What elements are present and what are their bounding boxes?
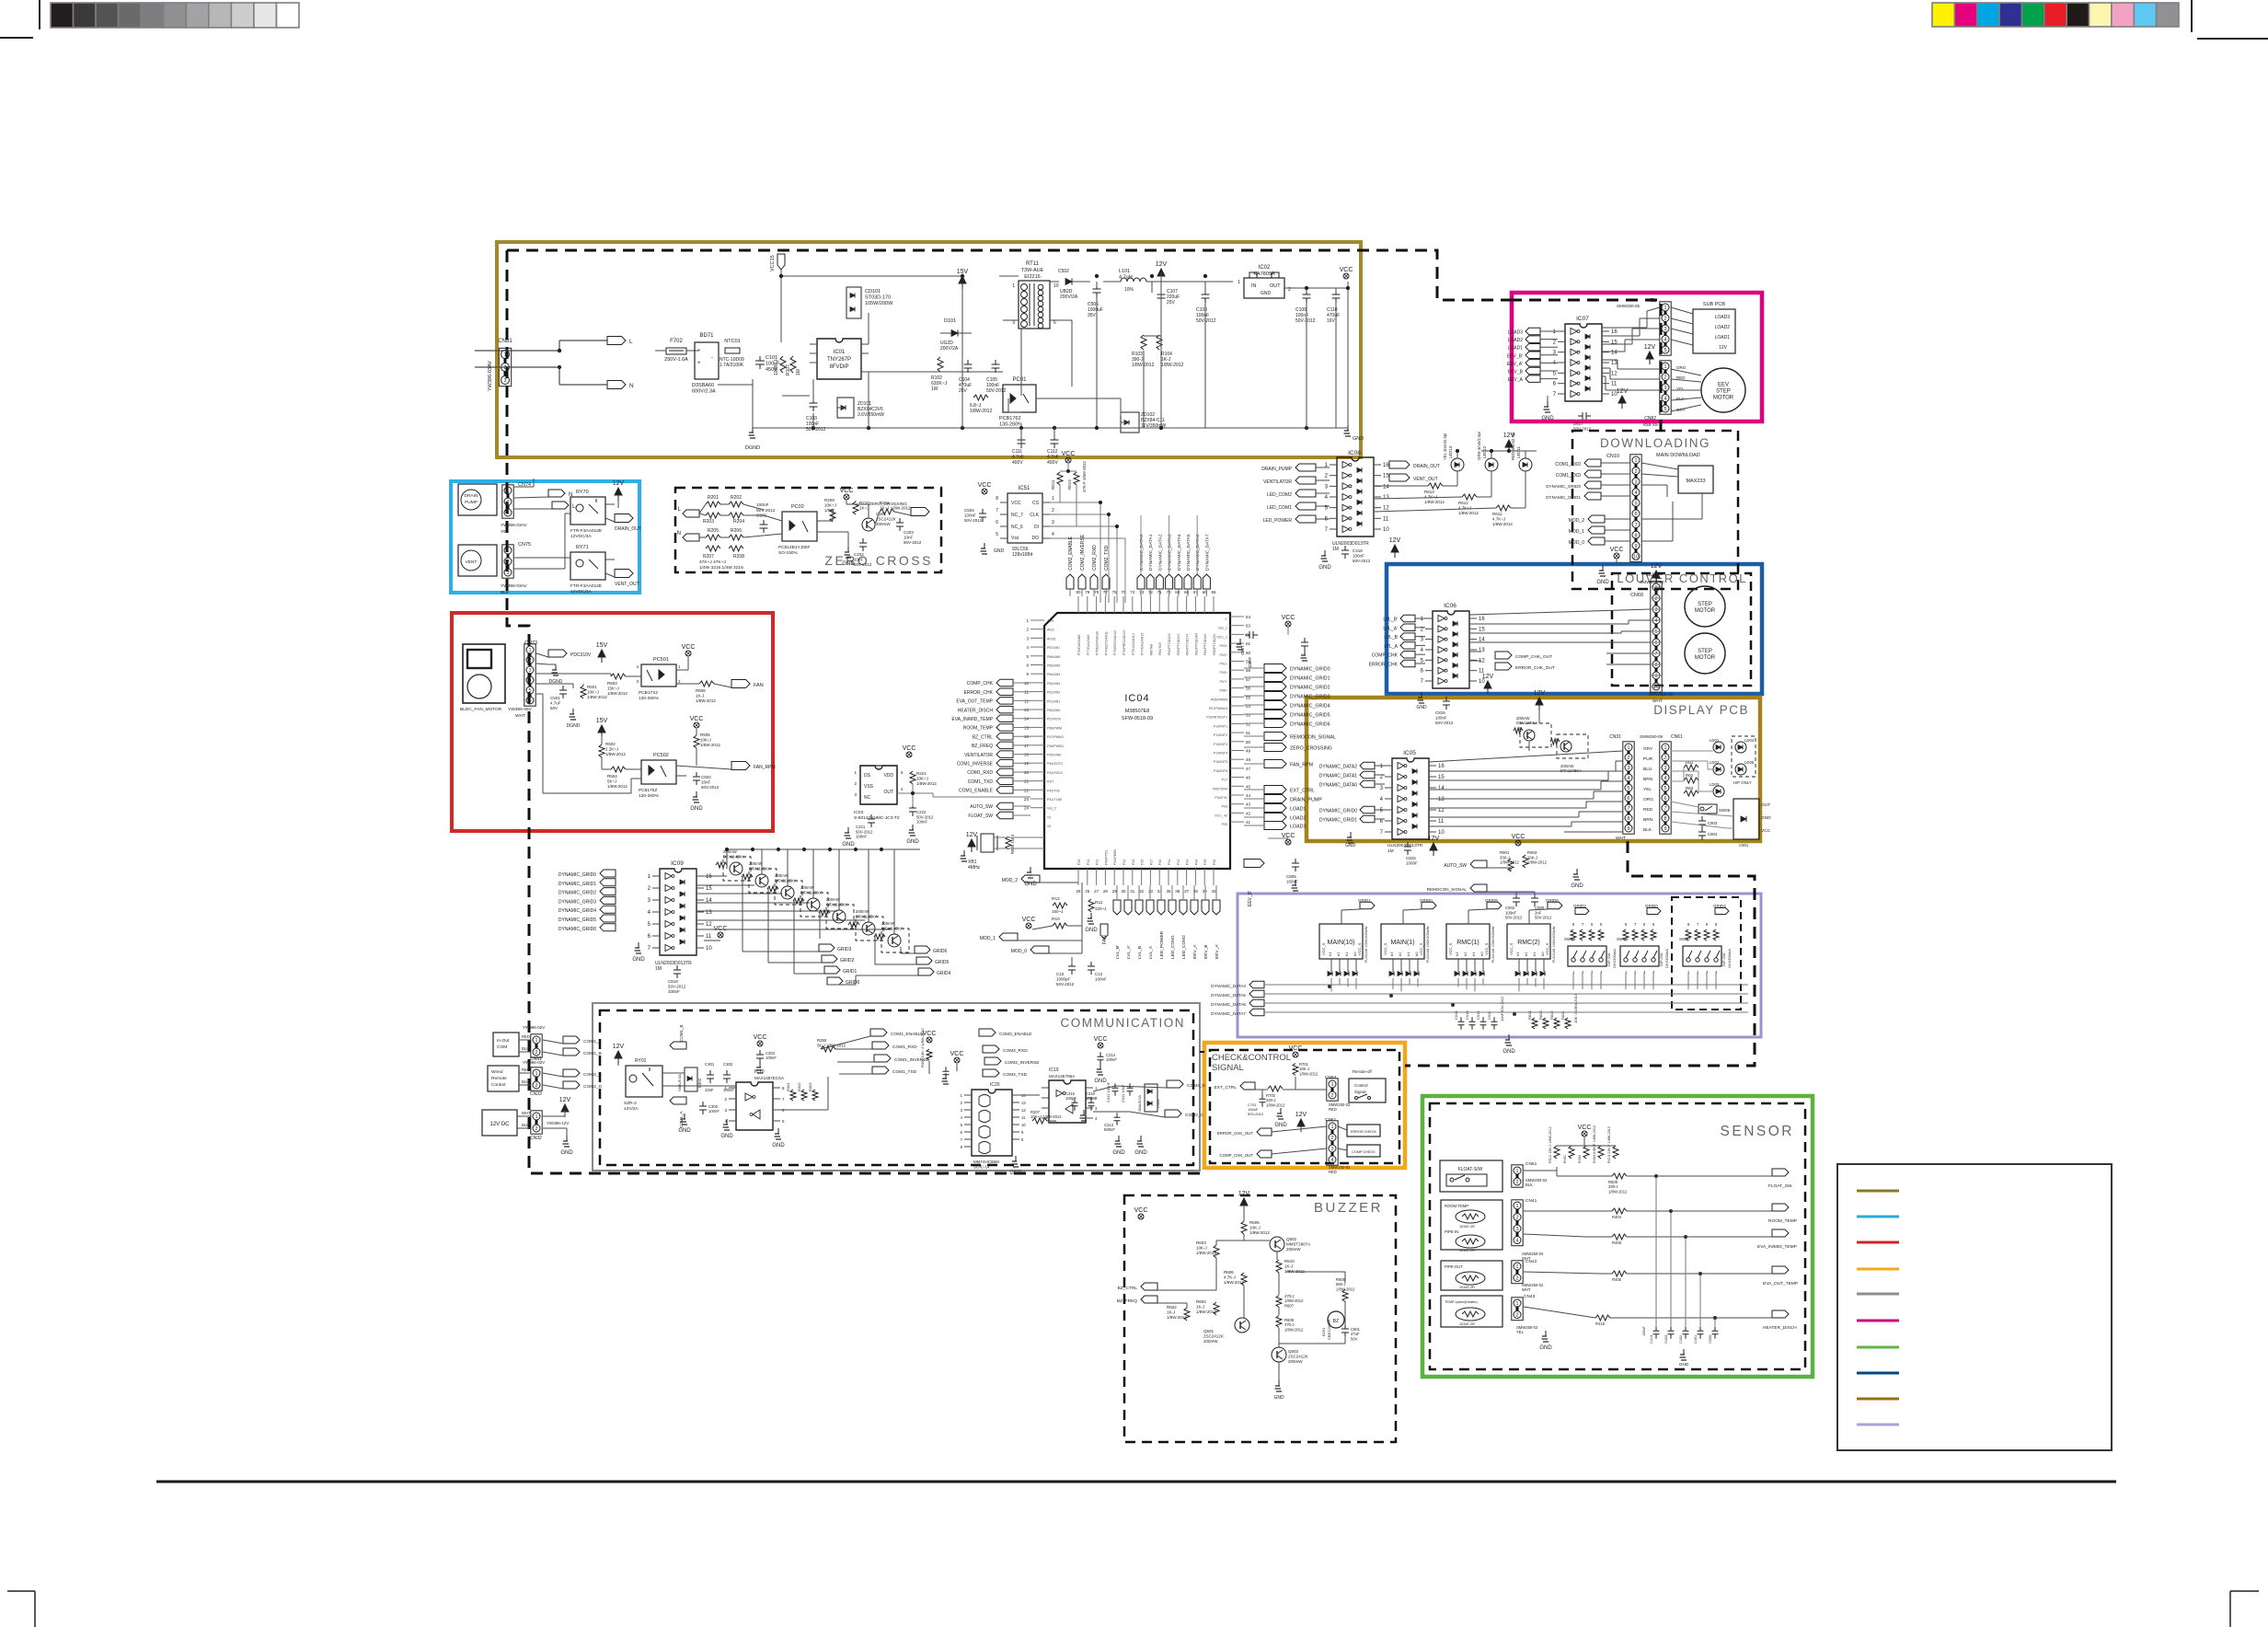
resistor R612: [1458, 494, 1479, 515]
svg-text:MOTOR: MOTOR: [1695, 608, 1716, 614]
capacitor C315: [1065, 1091, 1078, 1111]
svg-text:COMMUNICATION: COMMUNICATION: [1061, 1016, 1186, 1030]
svg-text:10K~J: 10K~J: [587, 690, 599, 695]
svg-text:ZERO_CROSSING: ZERO_CROSSING: [869, 502, 907, 507]
net flag VCC mcu right: [1268, 833, 1295, 846]
svg-text:b2: b2: [1463, 952, 1468, 956]
flag COM1_TXD comm: [872, 1067, 917, 1075]
wire eeprom bus vertical: [1100, 545, 1125, 596]
svg-text:DYNAMIC_GRID0: DYNAMIC_GRID0: [558, 872, 596, 878]
svg-text:P75/BZ04/AN10: P75/BZ04/AN10: [1096, 631, 1099, 655]
flag DYNAMIC_GRID0 dl: [1546, 481, 1630, 489]
svg-text:DYNAMIC_GRID0: DYNAMIC_GRID0: [1319, 809, 1357, 814]
svg-text:RMC(1): RMC(1): [1456, 940, 1479, 946]
LED LED12: [1477, 432, 1498, 471]
svg-text:200V/2A: 200V/2A: [1060, 294, 1078, 300]
svg-text:MAX1487ECSA: MAX1487ECSA: [754, 1076, 784, 1080]
capacitor C203: [896, 518, 922, 545]
svg-text:100nF: 100nF: [1353, 554, 1364, 559]
svg-text:~: ~: [697, 348, 701, 353]
svg-text:2nF: 2nF: [1535, 910, 1542, 915]
svg-text:DS: DS: [864, 773, 871, 779]
resistor R202: [729, 495, 743, 507]
svg-text:2SC2412K: 2SC2412K: [1203, 1334, 1224, 1339]
svg-text:10K-J: 10K-J: [700, 738, 711, 743]
svg-text:IC03: IC03: [854, 810, 863, 815]
svg-text:12V: 12V: [966, 832, 978, 838]
capacitor C10: [1056, 962, 1076, 987]
wire power mid rail: [718, 313, 1348, 428]
bridge rectifier BD71: [692, 333, 719, 395]
flag GRID5: [916, 957, 950, 965]
svg-text:OUT: OUT: [1761, 802, 1770, 808]
svg-text:8: 8: [1627, 816, 1629, 822]
buzzer dashed box: [1124, 1195, 1396, 1442]
svg-text:RY71: RY71: [576, 545, 589, 550]
ground fan3: [690, 791, 703, 812]
svg-text:AVSS: AVSS: [1047, 637, 1056, 640]
svg-text:4.7K~J: 4.7K~J: [1458, 506, 1471, 511]
svg-text:4: 4: [1664, 338, 1666, 343]
svg-text:LED13: LED13: [1448, 445, 1453, 458]
svg-text:200mW: 200mW: [1286, 1247, 1301, 1252]
svg-text:P05/T2N4: P05/T2N4: [1213, 787, 1227, 790]
svg-text:2: 2: [1664, 375, 1666, 381]
svg-text:1/8W-2012: 1/8W-2012: [1424, 500, 1445, 504]
resistor R512 v: [1548, 1126, 1560, 1163]
flag DYNAMIC_GRID1 input: [558, 879, 616, 887]
svg-text:MOTOR: MOTOR: [1713, 396, 1734, 401]
error check box: [1347, 1125, 1380, 1137]
svg-text:330nF: 330nF: [668, 989, 680, 994]
svg-text:Wired: Wired: [491, 1069, 503, 1075]
flag LED_POWER in: [1263, 515, 1316, 524]
svg-text:R607: R607: [1284, 1303, 1295, 1308]
svg-text:COM1_A: COM1_A: [679, 1111, 684, 1128]
ground ic03 a: [842, 827, 855, 848]
resistor R605: [1241, 1220, 1270, 1235]
svg-text:ULN2003D013TR: ULN2003D013TR: [1387, 843, 1423, 848]
svg-text:P45/SIN0: P45/SIN0: [1047, 754, 1061, 757]
ground comm c: [772, 1128, 785, 1148]
svg-text:P05/PWM4: P05/PWM4: [1211, 698, 1227, 701]
svg-text:GND: GND: [906, 839, 919, 845]
flag COM2_TXD top: [1102, 545, 1110, 589]
svg-text:100nF: 100nF: [1435, 716, 1447, 721]
resistor R250: [817, 1038, 846, 1052]
flag COM1_TXD dl: [1556, 470, 1630, 479]
svg-text:53: 53: [1246, 713, 1251, 718]
flag DYNAMIC_GRID0 right: [1264, 664, 1330, 673]
flag ERROR_CHK_OUT check: [1217, 1128, 1272, 1136]
zero cross dashed box: [675, 488, 941, 572]
svg-text:BZ_FREQ: BZ_FREQ: [1117, 1298, 1137, 1304]
connector CN31 display: [1609, 734, 1663, 841]
net flag VCC IC09: [714, 926, 728, 938]
flag N zerocross: [677, 531, 699, 541]
svg-text:P84/PTCB1X4: P84/PTCB1X4: [1203, 634, 1207, 655]
svg-text:MOD_1: MOD_1: [1569, 529, 1584, 535]
diode D101: [940, 318, 972, 352]
svg-text:C202: C202: [854, 552, 864, 557]
svg-text:4: 4: [1664, 776, 1666, 781]
svg-text:D304: D304: [1156, 1099, 1160, 1108]
capacitor C112: [1047, 435, 1059, 466]
wire ic08 inputs: [1316, 467, 1330, 519]
svg-text:10K-J: 10K-J: [1527, 855, 1537, 860]
flag COM2_ENABLE comm: [979, 1029, 1031, 1037]
svg-text:100nF: 100nF: [1642, 1326, 1646, 1336]
resistor R61: [1684, 760, 1698, 770]
svg-text:3: 3: [1634, 479, 1637, 485]
svg-text:9: 9: [1654, 674, 1657, 679]
svg-text:120~J: 120~J: [1095, 906, 1106, 911]
wire mains L: [475, 340, 607, 351]
svg-text:10: 10: [1633, 555, 1639, 560]
svg-text:P07/PWM24: P07/PWM24: [1209, 707, 1227, 710]
svg-text:15: 15: [1479, 627, 1485, 632]
power supply section box (olive): [497, 242, 1361, 457]
svg-text:R5B-X5-A: R5B-X5-A: [1643, 422, 1662, 427]
connector CN33 left: [522, 1060, 545, 1097]
net flag 12V comm: [613, 1044, 625, 1064]
svg-text:1/8W-2012: 1/8W-2012: [1458, 511, 1479, 515]
svg-text:2.2K~J: 2.2K~J: [605, 747, 618, 752]
svg-text:P75/2A3/AN14: P75/2A3/AN14: [1132, 633, 1135, 655]
svg-text:N: N: [677, 531, 681, 537]
svg-text:30: 30: [1121, 889, 1126, 894]
svg-text:69: 69: [1175, 590, 1180, 594]
svg-text:R613: R613: [1424, 490, 1434, 494]
sensor section box (green): [1422, 1096, 1813, 1377]
svg-text:12V: 12V: [1389, 537, 1401, 544]
svg-text:P56/PWM: P56/PWM: [1047, 726, 1062, 730]
resistor R603: [1196, 1240, 1219, 1258]
ground DGND fan1: [548, 664, 563, 685]
wire ic06 to cn60: [1469, 609, 1651, 664]
svg-text:REMOCON_SIGNAL: REMOCON_SIGNAL: [1427, 887, 1468, 892]
capacitor C312: [1106, 1081, 1119, 1102]
flag LVL_A' louver input: [1383, 624, 1425, 631]
svg-text:15V: 15V: [596, 642, 608, 649]
flag GRID6: [915, 946, 948, 954]
svg-text:R415: R415: [1595, 1321, 1606, 1326]
svg-text:DYNAMIC_DATA4: DYNAMIC_DATA4: [1211, 984, 1246, 988]
svg-text:DIP-SW: DIP-SW: [1659, 952, 1664, 966]
svg-text:12V: 12V: [1719, 345, 1728, 351]
svg-text:1: 1: [535, 1114, 537, 1120]
svg-text:FTR-F3AA012E: FTR-F3AA012E: [570, 528, 602, 534]
svg-text:R814: R814: [1527, 1010, 1532, 1020]
bottom-right crop mark: [2230, 1591, 2259, 1627]
ground GND power right: [1344, 425, 1364, 442]
svg-text:VCC: VCC: [682, 644, 696, 651]
svg-text:b2: b2: [1524, 952, 1528, 956]
svg-text:12: 12: [706, 922, 712, 928]
net flag 12V ic08: [1389, 537, 1401, 558]
optocoupler PC02: [778, 504, 817, 556]
svg-text:C501: C501: [550, 696, 560, 700]
svg-text:OUT: OUT: [883, 790, 893, 795]
svg-text:b3: b3: [1515, 952, 1520, 956]
svg-text:33: 33: [1148, 889, 1154, 894]
MAX233 level shifter: [1678, 466, 1713, 493]
svg-text:LOAD3: LOAD3: [1508, 330, 1524, 336]
fan motor section box (red): [452, 613, 773, 831]
resistor R205: [706, 528, 720, 540]
flag L zerocross: [678, 507, 699, 517]
svg-text:DRAIN_OUT: DRAIN_OUT: [615, 526, 641, 532]
svg-text:12V: 12V: [559, 1097, 571, 1103]
svg-text:LOUVER CONTROL: LOUVER CONTROL: [1617, 571, 1747, 585]
capacitor C111: [1012, 435, 1026, 466]
svg-text:b0: b0: [1540, 952, 1545, 956]
svg-text:VCC: VCC: [1011, 501, 1021, 506]
svg-text:PUR: PUR: [1643, 756, 1653, 762]
relay RY71: [570, 545, 605, 594]
svg-text:LED11: LED11: [1516, 446, 1521, 458]
resistor R405: [1612, 1234, 1627, 1245]
svg-text:IC20: IC20: [990, 1082, 1000, 1088]
svg-text:COM2_D: COM2_D: [1187, 1083, 1206, 1089]
svg-text:2: 2: [1664, 317, 1666, 322]
svg-text:1K-J: 1K-J: [696, 694, 704, 698]
svg-text:5: 5: [1654, 629, 1657, 635]
display drive section box (light violet): [1238, 894, 1761, 1037]
capacitor C304: [756, 1050, 777, 1073]
resistor R506: [696, 681, 716, 703]
svg-text:EVA_IN/MID_TEMP: EVA_IN/MID_TEMP: [951, 717, 993, 722]
svg-text:P74/BZT1/AN11: P74/BZT1/AN11: [1104, 631, 1108, 655]
svg-text:P30: P30: [1158, 860, 1162, 865]
svg-text:EEV_A': EEV_A': [1507, 362, 1523, 367]
svg-text:1M: 1M: [655, 966, 662, 972]
title CHECK&CONTROL SIGNAL: [1212, 1053, 1291, 1073]
svg-text:b1: b1: [1532, 952, 1537, 956]
svg-text:IC05: IC05: [1403, 750, 1416, 756]
svg-text:COM1_B: COM1_B: [583, 1051, 602, 1056]
svg-text:YEL: YEL: [1643, 787, 1652, 792]
svg-text:P27: P27: [1149, 860, 1153, 865]
flag FAN out: [731, 680, 764, 689]
svg-text:D817: D817: [1573, 421, 1583, 426]
thermistor block room/pipein: [1441, 1200, 1502, 1252]
svg-text:VCC: VCC: [1134, 1207, 1148, 1214]
svg-text:DYNAMIC_DATA0: DYNAMIC_DATA0: [1319, 783, 1357, 789]
svg-text:36: 36: [1175, 889, 1180, 894]
ground DGND fan2: [567, 709, 581, 729]
svg-text:GND: GND: [632, 957, 645, 963]
transistor Q201: [862, 512, 896, 531]
svg-text:MOD_0: MOD_0: [1569, 540, 1584, 546]
svg-text:1/8W-2012: 1/8W-2012: [1284, 1327, 1304, 1332]
svg-text:80: 80: [1076, 590, 1081, 594]
svg-text:BLU: BLU: [522, 1046, 529, 1051]
wire fan nets: [536, 653, 731, 793]
svg-text:IC06: IC06: [1444, 603, 1456, 609]
node mains junctions: [558, 349, 560, 368]
connector CN81: [488, 339, 512, 391]
resistor R607: [1276, 1294, 1304, 1308]
svg-text:ORG: ORG: [1643, 797, 1653, 802]
flag LED_COM2 in: [1267, 490, 1316, 498]
svg-text:R602: R602: [1167, 1305, 1177, 1310]
svg-text:1: 1: [1664, 306, 1666, 311]
svg-text:b3: b3: [1389, 952, 1394, 956]
label resistor values zero cross: [699, 560, 743, 571]
svg-text:1: 1: [528, 648, 531, 653]
net flag 12V louver: [1482, 674, 1494, 694]
IC19 MAX14E785A: [1042, 1067, 1098, 1123]
svg-text:P81/TA9: P81/TA9: [1158, 642, 1162, 655]
svg-text:VCC_42: VCC_42: [1215, 813, 1227, 817]
svg-text:SMW250-05: SMW250-05: [1617, 304, 1641, 308]
net flag VCC comm1: [754, 1034, 767, 1046]
resistor R203: [703, 513, 720, 525]
svg-text:CD101: CD101: [865, 289, 881, 294]
svg-text:PC501: PC501: [653, 657, 669, 663]
svg-text:GND: GND: [1009, 1171, 1022, 1176]
net flag 12V grid: [966, 832, 978, 852]
svg-text:P57/INT0: P57/INT0: [1047, 718, 1061, 721]
svg-text:VCC: VCC: [1289, 1045, 1303, 1052]
resistor R104: [1157, 335, 1184, 368]
svg-text:R204: R204: [733, 519, 744, 525]
svg-text:C815: C815: [1406, 856, 1416, 860]
resistor R702: [1266, 1086, 1285, 1107]
svg-text:2: 2: [506, 500, 509, 505]
flag DYNAMIC_GRID6 input: [558, 924, 616, 932]
svg-text:C402: C402: [1679, 1335, 1683, 1344]
svg-text:FLS4148 100V/200mW: FLS4148 100V/200mW: [1426, 926, 1430, 963]
svg-text:SMAJ5.0A: SMAJ5.0A: [1138, 1095, 1142, 1112]
svg-text:1: 1: [1515, 1301, 1518, 1307]
resistor R701: [1293, 1062, 1318, 1076]
svg-text:VCC: VCC: [690, 716, 704, 722]
legend swatch louver line: [1857, 1372, 1899, 1375]
svg-text:2: 2: [535, 1126, 537, 1132]
flag FAN_RPM out: [731, 762, 776, 771]
svg-text:R502: R502: [605, 742, 616, 746]
svg-text:DYNAMIC_GRID1: DYNAMIC_GRID1: [1319, 818, 1357, 824]
flag COM2_D comm: [1167, 1080, 1206, 1089]
flag COM2_ENABLE top: [1066, 536, 1074, 589]
resistor R209: [824, 498, 836, 522]
svg-text:2: 2: [1654, 596, 1657, 602]
svg-text:R510: R510: [1284, 1259, 1295, 1264]
resistor R303: [808, 1082, 818, 1101]
svg-text:ZERO CROSS: ZERO CROSS: [824, 553, 933, 568]
ground ic08: [1318, 550, 1331, 571]
sub pcb box: [1693, 302, 1735, 353]
svg-text:DYNAMIC_GRID1: DYNAMIC_GRID1: [1546, 495, 1581, 500]
svg-text:SMW250-09: SMW250-09: [1640, 734, 1664, 739]
main pcb dashed boundary magenta branch: [1510, 300, 1661, 431]
svg-text:1/4W 3216 1/4W 3216: 1/4W 3216 1/4W 3216: [699, 565, 743, 571]
svg-text:EXT_CTRL: EXT_CTRL: [1290, 789, 1315, 794]
svg-text:ZERO_CROSSING: ZERO_CROSSING: [1290, 746, 1332, 752]
svg-text:DTA114EKA: DTA114EKA: [775, 878, 797, 883]
svg-text:5K~J: 5K~J: [607, 779, 616, 784]
svg-text:SENSOR: SENSOR: [1721, 1124, 1794, 1139]
svg-text:VENTILATOR: VENTILATOR: [1263, 479, 1292, 485]
svg-text:SMW250-10: SMW250-10: [1649, 692, 1674, 698]
svg-text:BZ: BZ: [1333, 1319, 1339, 1324]
flag ERROR_CHK louver input: [1369, 660, 1425, 667]
svg-text:1: 1: [1664, 364, 1666, 370]
resistor R413 v: [1607, 1126, 1618, 1163]
resistor R606: [1224, 1270, 1247, 1286]
svg-text:50V-2012: 50V-2012: [854, 562, 872, 567]
flag LED_COM1 bottom: [1169, 900, 1176, 959]
svg-text:SIGNAL: SIGNAL: [1212, 1063, 1244, 1073]
svg-text:P77/DA1/AN15: P77/DA1/AN15: [1141, 633, 1145, 655]
flag GRID3: [819, 944, 852, 952]
ground comm in: [560, 1136, 573, 1156]
svg-text:7: 7: [996, 508, 998, 513]
resistor R208: [729, 546, 744, 560]
svg-text:60: 60: [1246, 651, 1251, 655]
svg-text:COM1_TXD: COM1_TXD: [1556, 473, 1582, 479]
wire zero cross nets: [699, 501, 911, 547]
flag EEV_B bottom: [1202, 900, 1209, 959]
svg-text:MAIN(10): MAIN(10): [1328, 940, 1355, 946]
svg-text:16: 16: [706, 874, 712, 880]
svg-text:1: 1: [1330, 1082, 1333, 1088]
svg-text:PIPE-IN: PIPE-IN: [1445, 1229, 1458, 1234]
svg-text:23: 23: [1024, 797, 1030, 802]
step motor lower: [1685, 633, 1725, 674]
connector CN41: [1512, 1198, 1544, 1261]
svg-text:1: 1: [506, 548, 509, 554]
svg-text:R404: R404: [1612, 1215, 1622, 1219]
svg-text:BUZZER: BUZZER: [1314, 1200, 1383, 1216]
svg-text:GND: GND: [720, 1134, 733, 1139]
flag VENT_OUT out: [1389, 474, 1438, 482]
flag COM2_C comm: [1165, 1110, 1204, 1118]
svg-text:MOTOR: MOTOR: [1695, 655, 1716, 661]
EEV step motor: [1701, 368, 1745, 412]
svg-text:3: 3: [1330, 1147, 1333, 1152]
net flag VCC mcu topright: [1282, 615, 1308, 661]
svg-text:b3: b3: [1455, 952, 1459, 956]
wire sensor nets: [1524, 1137, 1772, 1327]
flag EEV_A eev input: [1508, 375, 1558, 383]
svg-text:Control: Control: [1354, 1083, 1368, 1088]
svg-text:RED: RED: [1329, 1107, 1337, 1112]
flag MOD_2 dl: [1569, 515, 1630, 524]
louver inner dashed box: [1612, 573, 1751, 686]
svg-text:1: 1: [506, 489, 509, 494]
net flag 12V ic05: [1428, 836, 1440, 856]
svg-text:COM1_ENABLE: COM1_ENABLE: [891, 1032, 923, 1037]
resistor R103: [1132, 335, 1155, 368]
flag GRID5: [1468, 898, 1502, 924]
svg-text:VDD: VDD: [883, 773, 893, 779]
svg-text:D101: D101: [944, 318, 956, 324]
svg-text:ST03D-170: ST03D-170: [865, 295, 891, 301]
capacitor C107: [1157, 289, 1180, 306]
svg-text:CN60: CN60: [1630, 593, 1643, 598]
svg-text:6: 6: [1654, 640, 1657, 646]
svg-text:PUMP: PUMP: [465, 500, 478, 505]
svg-text:CBE2230BP: CBE2230BP: [1327, 1319, 1331, 1340]
svg-text:IC01: IC01: [834, 350, 846, 355]
svg-text:10nF: 10nF: [854, 558, 864, 562]
svg-text:C819: C819: [668, 979, 678, 984]
svg-text:R505: R505: [700, 733, 710, 737]
IC07 ULN2003 driver: [1553, 316, 1618, 401]
